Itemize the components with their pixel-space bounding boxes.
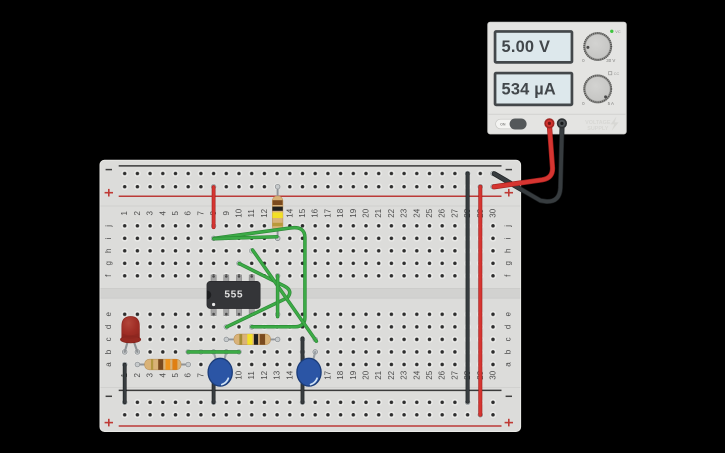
svg-text:10: 10 <box>235 208 244 217</box>
svg-text:12: 12 <box>260 208 269 217</box>
capacitor C2 body <box>297 358 321 386</box>
svg-text:19: 19 <box>349 208 358 217</box>
svg-text:c: c <box>104 337 113 341</box>
top rail minus line <box>119 165 502 167</box>
svg-text:CC: CC <box>614 72 620 76</box>
svg-text:5: 5 <box>171 373 180 378</box>
wire green g10 to d9 (hooked bend) <box>227 264 290 327</box>
knob voltage <box>582 30 621 63</box>
svg-text:12: 12 <box>260 370 269 379</box>
wire red jumper +rail to j8 <box>212 187 216 227</box>
wire green i8 to d11 (via col15 bend) <box>214 228 305 327</box>
svg-text:j: j <box>104 225 113 228</box>
supply voltage display 5.00 V <box>494 30 574 64</box>
svg-text:7: 7 <box>196 211 205 216</box>
supply terminal positive <box>544 118 554 128</box>
svg-text:a: a <box>503 362 512 367</box>
wire black c15 to bottom rail <box>301 338 305 402</box>
svg-text:22: 22 <box>387 370 396 379</box>
wire endpoint hole pads <box>211 184 216 189</box>
resistor R1 100k vertical col13 <box>272 184 283 240</box>
capacitor C2 legs b15 b16 <box>300 350 317 362</box>
bottom rail minus line <box>119 389 502 391</box>
svg-text:30 V: 30 V <box>606 58 615 63</box>
svg-text:24: 24 <box>412 208 421 217</box>
svg-text:11: 11 <box>247 371 256 380</box>
svg-text:b: b <box>104 349 113 354</box>
svg-text:17: 17 <box>323 370 332 379</box>
rail symbols <box>106 169 112 171</box>
svg-text:j: j <box>503 225 512 228</box>
svg-text:h: h <box>503 249 512 253</box>
svg-text:2: 2 <box>133 211 142 216</box>
supply current display 534 uA <box>494 72 574 107</box>
wire green f13 to e13 jumper <box>276 276 280 317</box>
svg-text:e: e <box>503 312 512 317</box>
svg-text:26: 26 <box>438 208 447 217</box>
svg-text:21: 21 <box>374 208 383 217</box>
svg-text:26: 26 <box>438 370 447 379</box>
svg-text:30: 30 <box>489 208 498 217</box>
supply label text <box>585 117 618 133</box>
capacitor C1 legs b8 b9 <box>211 350 228 362</box>
svg-text:23: 23 <box>400 370 409 379</box>
power supply unit <box>488 22 627 134</box>
svg-text:23: 23 <box>400 208 409 217</box>
svg-text:3: 3 <box>146 211 155 216</box>
svg-text:VC: VC <box>615 30 621 34</box>
svg-text:14: 14 <box>285 208 294 217</box>
wire red col29 +rail to +rail <box>478 187 482 415</box>
svg-text:25: 25 <box>425 208 434 217</box>
resistor R3 100k c9 to c13 <box>224 334 280 345</box>
svg-text:22: 22 <box>387 208 396 217</box>
svg-text:SUPPLY: SUPPLY <box>587 126 608 132</box>
svg-text:18: 18 <box>336 370 345 379</box>
svg-text:2: 2 <box>133 373 142 378</box>
bottom rail plus line <box>119 425 502 427</box>
svg-text:11: 11 <box>247 209 256 218</box>
capacitor C1 body <box>208 358 232 386</box>
svg-text:20: 20 <box>362 208 371 217</box>
LED D1 red b1 b2 <box>120 317 140 355</box>
wire green h11 to c16 <box>253 250 317 341</box>
svg-text:g: g <box>104 261 113 265</box>
svg-text:b: b <box>503 349 512 354</box>
svg-text:d: d <box>503 325 512 329</box>
wire red supply to plus rail <box>494 124 552 187</box>
top rail plus line <box>119 195 502 197</box>
svg-text:1: 1 <box>120 211 129 216</box>
svg-text:g: g <box>503 261 512 265</box>
breadboard body <box>100 160 521 431</box>
svg-text:27: 27 <box>450 370 459 379</box>
svg-text:6: 6 <box>184 373 193 378</box>
svg-text:5 A: 5 A <box>608 101 614 106</box>
svg-text:19: 19 <box>349 370 358 379</box>
svg-text:21: 21 <box>374 370 383 379</box>
svg-text:7: 7 <box>196 373 205 378</box>
wire black a1 to bottom rail <box>123 365 127 403</box>
svg-text:5.00 V: 5.00 V <box>502 38 551 56</box>
svg-text:i: i <box>503 237 512 239</box>
ON switch <box>496 119 527 130</box>
svg-text:534 µA: 534 µA <box>502 80 556 98</box>
supply terminal negative <box>557 118 567 128</box>
svg-text:13: 13 <box>273 370 282 379</box>
wire black supply to minus rail <box>494 124 562 202</box>
svg-text:10: 10 <box>235 370 244 379</box>
svg-text:e: e <box>104 312 113 317</box>
svg-text:ON: ON <box>500 123 506 127</box>
svg-text:14: 14 <box>285 370 294 379</box>
wire black a8 to bottom rail <box>212 365 216 402</box>
svg-text:i: i <box>104 237 113 239</box>
svg-text:18: 18 <box>336 208 345 217</box>
wire green b6 to b10 <box>188 350 239 354</box>
svg-text:30: 30 <box>489 370 498 379</box>
svg-text:d: d <box>104 325 113 329</box>
svg-text:16: 16 <box>311 208 320 217</box>
svg-text:17: 17 <box>323 208 332 217</box>
svg-text:4: 4 <box>158 211 167 216</box>
svg-text:3: 3 <box>146 373 155 378</box>
svg-text:555: 555 <box>224 290 243 301</box>
breadboard holes <box>118 167 499 193</box>
op IC U1 555 timer <box>207 275 260 316</box>
svg-text:a: a <box>104 362 113 367</box>
svg-text:c: c <box>503 337 512 341</box>
svg-text:4: 4 <box>158 373 167 378</box>
svg-text:9: 9 <box>222 211 231 216</box>
svg-text:15: 15 <box>298 208 307 217</box>
wire black col28 top rail to bottom rail <box>466 174 470 402</box>
knob current <box>582 72 619 106</box>
svg-text:25: 25 <box>425 370 434 379</box>
resistor R2 330ohm a2 to a6 <box>135 359 191 370</box>
svg-text:24: 24 <box>412 370 421 379</box>
svg-text:5: 5 <box>171 211 180 216</box>
svg-text:h: h <box>104 249 113 253</box>
svg-text:27: 27 <box>450 208 459 217</box>
svg-text:20: 20 <box>362 370 371 379</box>
wire green i8 to i13 <box>214 237 277 239</box>
svg-text:6: 6 <box>184 211 193 216</box>
